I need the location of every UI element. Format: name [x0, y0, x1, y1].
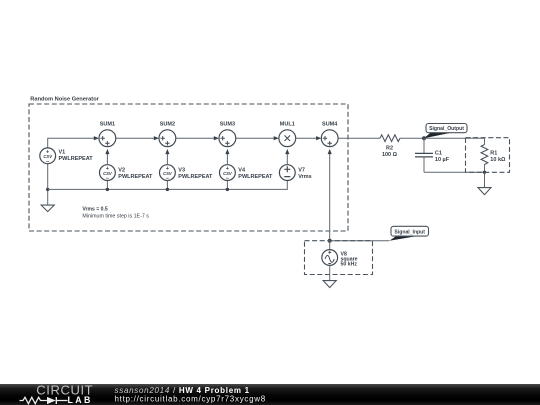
- voltage source V3: [160, 165, 214, 182]
- footer title text: [115, 386, 266, 404]
- svg-text:SUM1: SUM1: [100, 122, 115, 128]
- svg-text:http://circuitlab.com/cyp7r73x: http://circuitlab.com/cyp7r73xycgw8: [115, 394, 266, 403]
- voltage source V1: [40, 148, 93, 165]
- svg-text:SUM2: SUM2: [160, 122, 175, 128]
- svg-text:PWLREPEAT: PWLREPEAT: [59, 156, 94, 162]
- resistor R1: [481, 138, 506, 172]
- voltage source V8: [322, 250, 358, 268]
- svg-text:Random Noise Generator: Random Noise Generator: [30, 97, 99, 103]
- svg-text:100 Ω: 100 Ω: [382, 152, 398, 158]
- wire SUM2 to SUM3: [176, 136, 219, 140]
- node Signal_Output junction: [422, 136, 426, 140]
- svg-text:R1: R1: [490, 150, 497, 156]
- svg-text:SUM3: SUM3: [220, 122, 235, 128]
- wire V3 to rail: [166, 181, 168, 190]
- svg-text:V1: V1: [59, 150, 66, 156]
- wire V2 to rail: [106, 181, 108, 190]
- svg-text:CSV: CSV: [163, 171, 173, 176]
- voltage source V7: [279, 165, 311, 181]
- svg-text:Vrms: Vrms: [298, 174, 311, 180]
- svg-text:MUL1: MUL1: [280, 122, 295, 128]
- enclosure around R1: [466, 138, 510, 173]
- node junction on rail at V4: [226, 188, 229, 191]
- svg-text:Vrms = 0.5: Vrms = 0.5: [82, 207, 108, 213]
- wire V7 to MUL1: [285, 149, 289, 165]
- voltage source V2: [100, 165, 154, 182]
- wire SUM4 to R2: [338, 137, 380, 139]
- wire SUM1 to SUM2: [116, 136, 159, 140]
- node junction on rail at V3: [166, 188, 169, 191]
- enclosure around V8: [305, 241, 373, 275]
- flag Signal_Input: [389, 226, 428, 240]
- wire V1 to SUM1: [48, 136, 99, 148]
- svg-text:10 µF: 10 µF: [435, 157, 450, 163]
- svg-text:SUM4: SUM4: [322, 122, 338, 128]
- node junction on rail at V2: [106, 188, 109, 191]
- CircuitLab logo: [20, 383, 94, 405]
- svg-text:C1: C1: [435, 151, 442, 157]
- resistor R2: [380, 135, 400, 158]
- wire output bottom rail: [424, 171, 485, 173]
- svg-text:CSV: CSV: [223, 171, 233, 176]
- svg-text:PWLREPEAT: PWLREPEAT: [118, 174, 153, 180]
- svg-text:Minimum time step is 1E-7 s: Minimum time step is 1E-7 s: [82, 213, 149, 219]
- svg-text:V7: V7: [298, 167, 305, 173]
- svg-text:V2: V2: [118, 167, 125, 173]
- wire node to R1: [424, 137, 485, 139]
- multiplier MUL1: [279, 122, 296, 147]
- svg-text:Signal_Output: Signal_Output: [429, 126, 464, 132]
- wire V4 to SUM3: [225, 149, 229, 165]
- svg-text:10 kΩ: 10 kΩ: [490, 157, 506, 163]
- svg-text:Signal_Input: Signal_Input: [394, 229, 425, 235]
- svg-text:LAB: LAB: [68, 395, 93, 405]
- wire V8 to ground: [329, 265, 331, 280]
- node Signal_Input junction: [328, 239, 332, 243]
- wire V4 to rail: [226, 181, 228, 190]
- node junction on rail at V1: [46, 188, 49, 191]
- ground (under V8): [323, 281, 336, 288]
- wire input node to flag: [330, 240, 390, 242]
- svg-text:PWLREPEAT: PWLREPEAT: [178, 174, 213, 180]
- wire node to V8: [329, 241, 331, 250]
- wire V2 to SUM1: [105, 149, 109, 165]
- svg-text:CSV: CSV: [43, 154, 53, 159]
- svg-text:V3: V3: [178, 167, 185, 173]
- wire SUM3 to MUL1: [236, 136, 279, 140]
- voltage source V4: [220, 165, 274, 182]
- wire R1 to ground: [484, 172, 486, 187]
- footer bar: [0, 384, 540, 405]
- summer SUM4: [321, 122, 338, 147]
- wire V3 to SUM2: [165, 149, 169, 165]
- ground (under V1): [41, 205, 54, 212]
- ground (under R1): [478, 188, 491, 195]
- wire V1 to ground rail: [47, 164, 49, 205]
- summer SUM3: [219, 122, 236, 147]
- svg-text:50 kHz: 50 kHz: [341, 262, 358, 268]
- summer SUM2: [159, 122, 176, 147]
- flag Signal_Output: [424, 124, 467, 139]
- wire MUL1 to SUM4: [296, 136, 322, 140]
- wire bottom rail: [48, 181, 288, 190]
- node junction R1 to rail: [483, 171, 486, 174]
- capacitor C1: [415, 138, 450, 172]
- svg-text:V4: V4: [238, 167, 246, 173]
- summer SUM1: [99, 122, 116, 147]
- svg-text:R2: R2: [386, 146, 393, 152]
- enclosure Random Noise Generator: [29, 97, 348, 232]
- svg-text:PWLREPEAT: PWLREPEAT: [238, 174, 273, 180]
- wire R2 to node Signal_Output: [400, 137, 424, 139]
- wire SUM4 to input node: [328, 149, 332, 241]
- svg-text:CSV: CSV: [103, 171, 113, 176]
